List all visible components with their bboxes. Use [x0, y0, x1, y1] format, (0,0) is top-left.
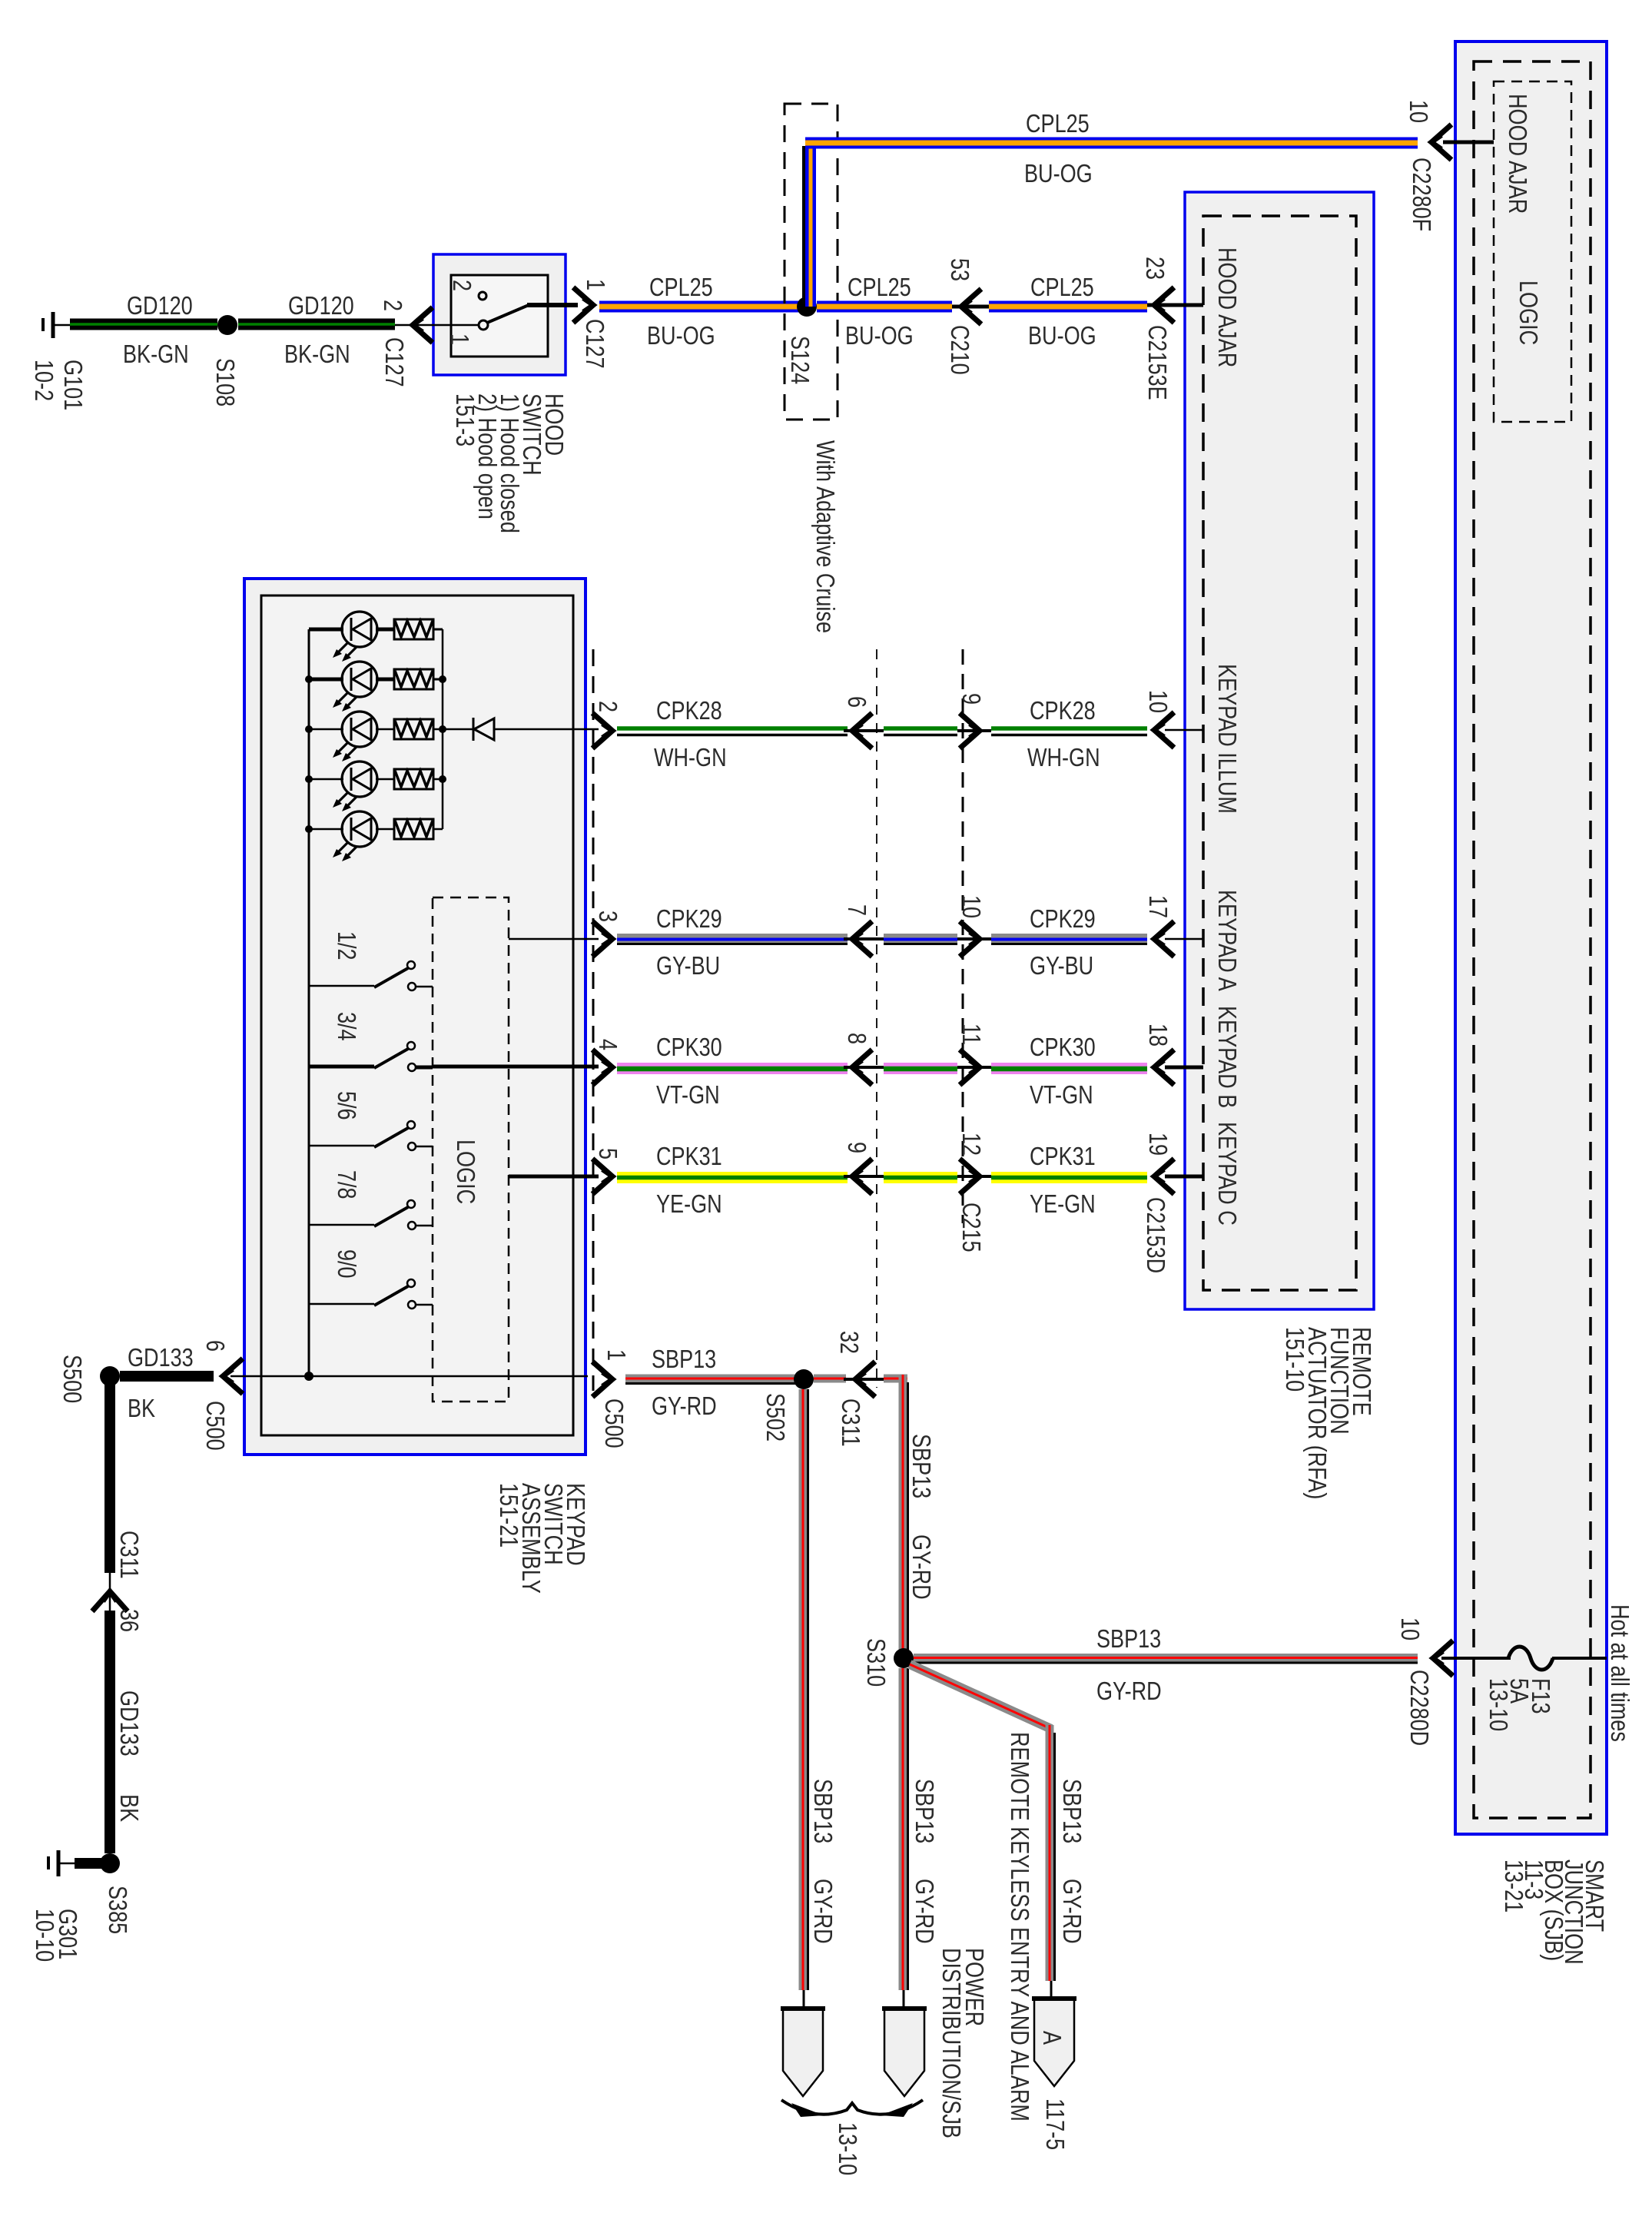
- switch 1/2: [309, 961, 433, 990]
- svg-text:10: 10: [957, 895, 984, 918]
- resistor R3 row3: [394, 719, 433, 739]
- svg-text:2: 2: [593, 701, 621, 712]
- svg-text:SBP13: SBP13: [652, 1346, 716, 1374]
- SJB hood-ajar LOGIC block: [1494, 81, 1571, 422]
- LED D1 row1: [333, 612, 377, 662]
- svg-text:VT-GN: VT-GN: [656, 1082, 720, 1110]
- splice S310: [861, 1638, 914, 1687]
- switch 7/8: [309, 1200, 433, 1229]
- CPK31 internal wire from LOGIC: [509, 1175, 599, 1179]
- wire CPK29 segment B: [884, 938, 957, 944]
- SJB pin 10 C2280F: [1404, 100, 1494, 231]
- svg-text:9: 9: [842, 1142, 870, 1153]
- hood switch name label: [450, 393, 567, 533]
- connector C2153E pin 23 arrow: [1140, 257, 1203, 400]
- svg-text:4: 4: [593, 1039, 621, 1050]
- wire SBP13 diagonal from S310: [910, 1664, 1051, 1729]
- connector pin 9 arrow: [957, 693, 991, 748]
- svg-text:CPK31: CPK31: [656, 1143, 722, 1171]
- keypad switch assembly box: [244, 579, 585, 1455]
- power distribution label: [937, 1948, 987, 2138]
- keypad pin 4 arrow: [592, 1039, 621, 1085]
- wire SBP13 S502 to C311: [814, 1375, 846, 1383]
- svg-text:G101: G101: [58, 360, 86, 410]
- resistor R1 row1: [394, 619, 433, 639]
- svg-text:CPK28: CPK28: [656, 698, 722, 725]
- svg-text:CPK30: CPK30: [1030, 1034, 1096, 1062]
- LED row wires: [309, 629, 443, 829]
- connector C127 pin 2 arrow: [378, 300, 433, 387]
- svg-text:S310: S310: [861, 1638, 889, 1687]
- svg-text:GD120: GD120: [288, 293, 354, 320]
- svg-text:10-10: 10-10: [30, 1909, 58, 1962]
- CPK30 internal wire through LOGIC: [433, 1065, 599, 1069]
- svg-text:10: 10: [1143, 690, 1171, 713]
- svg-text:10-2: 10-2: [29, 360, 57, 401]
- connector pin 12 arrow: [957, 1133, 991, 1194]
- wire GD133 BK vertical upper: [104, 1376, 115, 1573]
- switch 5/6: [309, 1121, 433, 1150]
- smart junction box SJB: [1455, 41, 1607, 1834]
- svg-text:VT-GN: VT-GN: [1030, 1082, 1093, 1110]
- hood switch box: [433, 254, 566, 375]
- svg-text:KEYPAD C: KEYPAD C: [1212, 1122, 1240, 1226]
- RFA name label: [1280, 1327, 1375, 1499]
- svg-text:9/0: 9/0: [332, 1249, 360, 1279]
- wire CPL25 BU-OG C210 to C2153E: [989, 274, 1147, 350]
- switch 3/4: [309, 1042, 433, 1071]
- diode D6: [443, 718, 599, 741]
- wire CPK30 VT-GN segment A: [617, 1034, 848, 1110]
- svg-text:11: 11: [957, 1023, 984, 1045]
- splice S502: [761, 1369, 814, 1441]
- keypad pin 5 arrow: [592, 1148, 621, 1194]
- svg-text:2: 2: [447, 280, 475, 291]
- svg-text:BK: BK: [114, 1794, 142, 1822]
- wire SBP13 vertical keyless entry: [1050, 1725, 1085, 2000]
- wire SBP13 vertical below S310: [903, 1668, 937, 2010]
- LED D5 row5: [333, 811, 377, 861]
- wire CPL25 BU-OG switch to S124: [599, 274, 806, 350]
- keypad right bus wire: [439, 629, 446, 829]
- wire GD133 BK horizontal: [120, 1345, 214, 1423]
- svg-text:CPL25: CPL25: [649, 274, 713, 302]
- connector pin 9 arrow: [842, 1142, 884, 1194]
- svg-text:C2153E: C2153E: [1143, 325, 1170, 400]
- wire CPK28 WH-GN segment A: [617, 698, 848, 772]
- svg-text:SBP13: SBP13: [1096, 1626, 1161, 1654]
- wire GD120 BK-GN segment 1: [70, 293, 217, 369]
- svg-text:BK-GN: BK-GN: [123, 341, 189, 369]
- svg-text:10: 10: [1395, 1617, 1423, 1641]
- svg-text:S124: S124: [785, 336, 813, 384]
- ground G301: [30, 1850, 81, 1962]
- svg-text:C311: C311: [836, 1398, 864, 1447]
- connector pin 10 arrow: [957, 895, 991, 957]
- svg-text:C127: C127: [580, 319, 608, 369]
- wire CPK30 segment C: [991, 1034, 1147, 1110]
- wire SBP13 C311 to corner: [884, 1375, 907, 1383]
- svg-text:13-21: 13-21: [1499, 1859, 1527, 1913]
- svg-text:GY-RD: GY-RD: [1057, 1879, 1085, 1944]
- svg-text:13-10: 13-10: [833, 2122, 861, 2175]
- wire CPK29 segment C: [991, 906, 1147, 980]
- off-page pointer 1: [783, 2009, 823, 2096]
- connector plane C311 dashed line: [876, 649, 877, 1388]
- connector pin 11 arrow: [957, 1023, 991, 1085]
- SJB fuse F13 5A: [1395, 1617, 1607, 1746]
- connector pin 17 arrow C2153D: [1143, 895, 1174, 957]
- svg-text:7/8: 7/8: [332, 1170, 360, 1199]
- svg-text:10: 10: [1404, 100, 1431, 123]
- svg-text:WH-GN: WH-GN: [654, 745, 727, 772]
- svg-text:9: 9: [957, 693, 984, 705]
- svg-text:S500: S500: [58, 1355, 85, 1403]
- svg-text:BK: BK: [128, 1395, 155, 1423]
- LED D3 row3: [333, 712, 377, 761]
- svg-text:8: 8: [842, 1033, 870, 1044]
- svg-text:C500: C500: [201, 1401, 228, 1451]
- wire CPK29 GY-BU segment A: [617, 906, 848, 980]
- svg-text:CPK29: CPK29: [1030, 906, 1096, 934]
- svg-text:5: 5: [593, 1148, 621, 1159]
- svg-text:151-10: 151-10: [1280, 1327, 1308, 1392]
- svg-text:C215: C215: [957, 1203, 984, 1252]
- svg-text:GY-RD: GY-RD: [1096, 1678, 1162, 1706]
- resistor R2 row2: [394, 669, 433, 689]
- hood switch contacts and blade: [433, 280, 578, 345]
- resistor R4 row4: [394, 769, 433, 789]
- svg-text:BK-GN: BK-GN: [284, 341, 350, 369]
- svg-text:1: 1: [445, 333, 473, 345]
- keypad left bus wire: [305, 629, 313, 1376]
- svg-text:18: 18: [1143, 1023, 1171, 1047]
- switch 9/0: [309, 1279, 433, 1309]
- splice S500: [58, 1355, 120, 1403]
- svg-text:117-5: 117-5: [1040, 2098, 1068, 2150]
- wire SBP13 vertical from S502: [803, 1389, 836, 2010]
- connector pin 7 arrow: [842, 904, 884, 957]
- svg-text:BU-OG: BU-OG: [1024, 161, 1093, 188]
- svg-text:GD133: GD133: [128, 1345, 194, 1372]
- svg-text:KEYPAD B: KEYPAD B: [1212, 1006, 1240, 1108]
- svg-text:1/2: 1/2: [332, 931, 360, 960]
- svg-text:GD120: GD120: [127, 293, 193, 320]
- connector pin 6 arrow: [842, 696, 884, 748]
- LOGIC dashed box: [433, 897, 509, 1402]
- wire SBP13 GY-RD pin1 to S502: [625, 1346, 795, 1421]
- svg-text:BU-OG: BU-OG: [647, 323, 715, 350]
- svg-text:HOOD AJAR: HOOD AJAR: [1212, 247, 1240, 367]
- svg-text:C2153D: C2153D: [1141, 1197, 1169, 1273]
- svg-text:S108: S108: [211, 358, 238, 406]
- svg-text:CPK31: CPK31: [1030, 1143, 1096, 1171]
- wire SBP13 GY-RD S310 to SJB: [914, 1626, 1418, 1706]
- SJB name label: [1499, 1859, 1607, 1965]
- svg-text:SBP13: SBP13: [910, 1779, 937, 1843]
- svg-text:CPK29: CPK29: [656, 906, 722, 934]
- svg-text:REMOTE KEYLESS ENTRY AND ALARM: REMOTE KEYLESS ENTRY AND ALARM: [1005, 1732, 1033, 2122]
- svg-text:C2280F: C2280F: [1407, 158, 1435, 231]
- svg-text:DISTRIBUTION/SJB: DISTRIBUTION/SJB: [937, 1948, 964, 2138]
- svg-text:GY-RD: GY-RD: [808, 1879, 836, 1944]
- svg-text:13-10: 13-10: [1484, 1678, 1511, 1731]
- svg-text:12: 12: [957, 1133, 984, 1156]
- connector pin 18 arrow C2153D: [1143, 1023, 1174, 1085]
- svg-text:S502: S502: [761, 1393, 788, 1441]
- svg-text:KEYPAD A: KEYPAD A: [1212, 890, 1240, 992]
- wire GD133 BK vertical lower: [110, 1611, 142, 1853]
- off-page pointer 2: [884, 2009, 924, 2096]
- connector pin 8 arrow: [842, 1033, 884, 1085]
- splice S108: [211, 315, 238, 406]
- svg-text:With Adaptive Cruise: With Adaptive Cruise: [811, 440, 838, 633]
- connector C500 pin 6 arrow: [201, 1340, 244, 1451]
- svg-text:SBP13: SBP13: [1057, 1779, 1085, 1843]
- svg-text:5/6: 5/6: [332, 1091, 360, 1120]
- svg-text:CPK30: CPK30: [656, 1034, 722, 1062]
- svg-text:YE-GN: YE-GN: [656, 1191, 722, 1219]
- connector plane C215 dashed line: [957, 649, 984, 1252]
- wire CPL25 riser to top: [804, 143, 811, 307]
- svg-text:19: 19: [1143, 1133, 1171, 1156]
- keypad pin 1 arrow C500: [592, 1349, 629, 1448]
- svg-text:23: 23: [1140, 257, 1168, 280]
- svg-text:A: A: [1037, 2031, 1065, 2045]
- svg-text:C127: C127: [380, 337, 407, 387]
- svg-text:2: 2: [378, 300, 406, 311]
- resistor R5 row5: [394, 819, 433, 839]
- svg-text:Hot at all times: Hot at all times: [1605, 1604, 1633, 1742]
- keypad name label: [494, 1483, 589, 1594]
- keypad pin 2 arrow: [592, 701, 621, 748]
- svg-text:KEYPAD ILLUM: KEYPAD ILLUM: [1212, 664, 1240, 814]
- brace 13-10: [781, 2100, 923, 2175]
- svg-text:GY-BU: GY-BU: [1030, 953, 1093, 980]
- svg-text:S385: S385: [103, 1886, 131, 1934]
- RFA pin labels: [1212, 247, 1240, 1226]
- svg-text:CPK28: CPK28: [1030, 698, 1096, 725]
- svg-text:151-3: 151-3: [450, 393, 478, 446]
- wire CPK30 segment B: [884, 1063, 957, 1075]
- svg-text:BU-OG: BU-OG: [845, 323, 914, 350]
- svg-text:GY-RD: GY-RD: [652, 1393, 717, 1421]
- wire SBP13 corner patch: [891, 1375, 907, 1392]
- CPK29 internal wire from LOGIC: [509, 938, 599, 941]
- svg-text:GY-RD: GY-RD: [907, 1534, 934, 1600]
- LED D2 row2: [333, 662, 377, 712]
- svg-text:C311: C311: [114, 1531, 142, 1579]
- svg-text:32: 32: [834, 1331, 862, 1354]
- svg-text:BU-OG: BU-OG: [1028, 323, 1096, 350]
- wire CPL25 BU-OG S124 to C210: [817, 274, 952, 350]
- svg-text:1: 1: [602, 1349, 629, 1361]
- keypad pin 3 arrow: [592, 911, 621, 957]
- wire CPK31 segment B: [884, 1172, 957, 1183]
- svg-text:C210: C210: [945, 325, 973, 375]
- svg-text:LOGIC: LOGIC: [1514, 280, 1541, 345]
- RFA pin stubs: [1165, 305, 1203, 1176]
- svg-text:GD133: GD133: [114, 1690, 142, 1757]
- svg-text:CPL25: CPL25: [1026, 111, 1090, 138]
- connector plane C500 dashed line: [592, 649, 595, 1391]
- ground G101: [29, 312, 86, 410]
- connector C311 36 arrow: [92, 1531, 142, 1632]
- wire CPL25 BU-OG top run: [805, 111, 1418, 188]
- remote function actuator RFA box: [1185, 192, 1374, 1309]
- svg-text:GY-BU: GY-BU: [656, 953, 720, 980]
- off-page pointer A: [1032, 1999, 1076, 2150]
- wire SBP13 vertical to S310: [903, 1375, 934, 1650]
- splice S385: [100, 1853, 131, 1934]
- svg-text:7: 7: [842, 904, 870, 916]
- LED D4 row4: [333, 761, 377, 811]
- svg-text:LOGIC: LOGIC: [451, 1140, 479, 1204]
- svg-text:151-21: 151-21: [494, 1483, 522, 1548]
- svg-text:C500: C500: [599, 1398, 627, 1448]
- svg-text:WH-GN: WH-GN: [1027, 745, 1100, 772]
- connector C210 pin 53 arrow: [945, 258, 989, 375]
- connector C311 pin 32 arrow: [834, 1331, 884, 1447]
- wire CPK28 segment B: [884, 728, 957, 735]
- svg-text:SBP13: SBP13: [808, 1779, 836, 1843]
- keypad internal bottom wire pin1-pin6: [244, 1372, 588, 1381]
- svg-text:HOOD AJAR: HOOD AJAR: [1503, 94, 1531, 214]
- svg-text:17: 17: [1143, 895, 1171, 918]
- svg-text:53: 53: [945, 258, 973, 281]
- connector pin 10 arrow C2153D: [1143, 690, 1174, 748]
- wire CPK31 segment C: [991, 1143, 1147, 1219]
- svg-text:GY-RD: GY-RD: [910, 1879, 937, 1944]
- svg-text:YE-GN: YE-GN: [1030, 1191, 1096, 1219]
- svg-text:3: 3: [593, 911, 621, 922]
- svg-text:1: 1: [581, 279, 609, 290]
- svg-text:3/4: 3/4: [332, 1012, 360, 1041]
- splice S124: [785, 297, 817, 384]
- svg-text:C2280D: C2280D: [1405, 1670, 1432, 1746]
- wire CPK31 YE-GN segment A: [617, 1143, 848, 1219]
- connector pin 19 arrow C2153D: [1143, 1133, 1174, 1194]
- with adaptive cruise dashed box: [785, 104, 838, 633]
- svg-text:CPL25: CPL25: [1030, 274, 1094, 302]
- wire CPK28 segment C: [991, 698, 1147, 772]
- connector C127 pin 1 arrow: [573, 279, 609, 369]
- svg-text:6: 6: [842, 696, 870, 708]
- wire GD120 BK-GN segment 2: [238, 293, 395, 369]
- svg-text:36: 36: [114, 1609, 142, 1632]
- svg-text:CPL25: CPL25: [848, 274, 911, 302]
- svg-text:SBP13: SBP13: [907, 1434, 934, 1498]
- svg-text:6: 6: [201, 1340, 228, 1352]
- wire BK stub to ground G301: [75, 1858, 104, 1869]
